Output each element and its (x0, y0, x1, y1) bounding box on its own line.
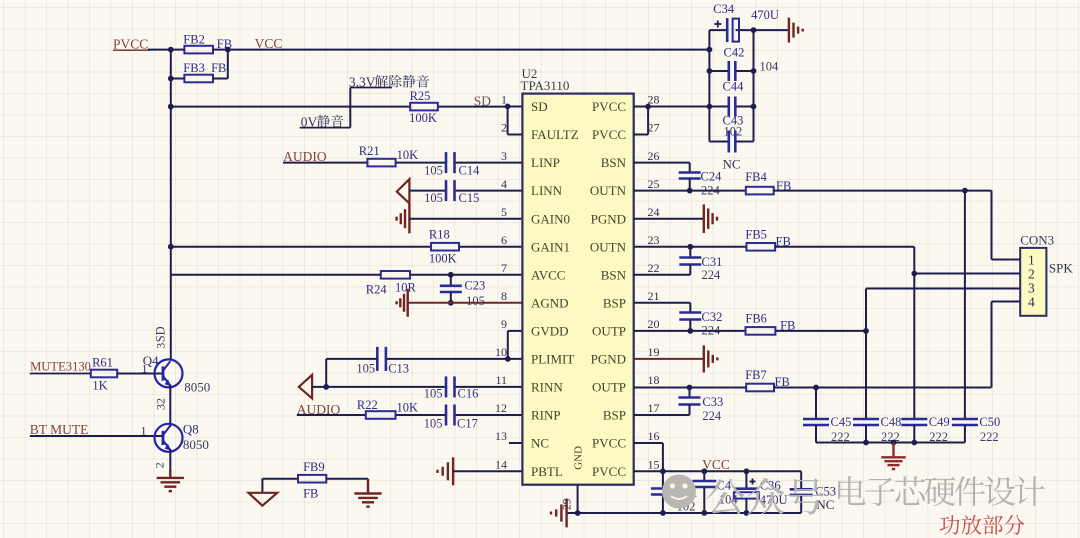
wire pin22 row (634, 274, 691, 276)
svg-text:FB: FB (211, 61, 226, 75)
svg-text:100K: 100K (409, 111, 437, 125)
wire FB3 up to VCC (227, 50, 229, 79)
svg-text:105: 105 (424, 163, 443, 177)
wire pin4 row (409, 190, 522, 192)
svg-text:FB5: FB5 (745, 227, 767, 241)
svg-text:NC: NC (531, 436, 549, 451)
ground earth snubber (881, 443, 905, 470)
wire C13 left bend (326, 359, 377, 387)
capacitor C23 (440, 275, 462, 303)
capacitor C13 (377, 347, 386, 371)
wire VCC top rail (228, 49, 710, 51)
label Q4 pin1 (142, 361, 148, 375)
svg-text:C14: C14 (459, 163, 481, 177)
svg-text:105: 105 (356, 362, 375, 376)
label R61 1K (92, 356, 113, 393)
label FB6 FB (745, 312, 795, 333)
svg-text:GND: GND (573, 446, 585, 470)
label C23 105 (464, 278, 485, 308)
label FB3 FB (183, 61, 226, 75)
label TPA3110 (521, 78, 570, 93)
junction C34 right (751, 27, 757, 33)
svg-text:17: 17 (648, 401, 660, 415)
transistor Q4 (155, 359, 183, 387)
junction rail SD row (168, 104, 174, 110)
svg-text:10R: 10R (395, 280, 417, 294)
svg-text:BSP: BSP (603, 295, 626, 310)
svg-text:TPA3110: TPA3110 (521, 78, 570, 93)
capacitor C49 (901, 419, 927, 443)
svg-text:224: 224 (702, 409, 722, 423)
svg-text:OUTN: OUTN (590, 183, 627, 198)
wire FB5 to CON3 pin2 (775, 247, 1020, 274)
resistor R21 (367, 159, 395, 167)
ground earth Q8 (157, 470, 184, 491)
wire pin11 row (312, 386, 522, 388)
svg-text:RINN: RINN (531, 380, 563, 395)
svg-text:C45: C45 (831, 415, 852, 429)
label CON3 pin numbers (1028, 253, 1035, 310)
junction pin11 node (323, 384, 329, 390)
label R25 100K (409, 89, 437, 125)
label U2 designator (522, 66, 538, 81)
label pin 29 rotated (562, 498, 574, 510)
svg-text:21: 21 (648, 289, 660, 303)
svg-text:25: 25 (648, 177, 660, 191)
wire pin9 bend (508, 331, 523, 359)
label 105 C14 (424, 163, 480, 177)
svg-text:C13: C13 (388, 362, 409, 376)
svg-text:FB4: FB4 (745, 170, 767, 184)
svg-text:19: 19 (648, 345, 660, 359)
capacitor C15 (446, 180, 455, 201)
ferrite bead FB2 (171, 46, 228, 54)
ground signal pin24 (634, 204, 717, 233)
svg-text:27: 27 (648, 121, 660, 135)
node VCC label bottom (702, 457, 730, 472)
capacitor C36 polarized (734, 471, 759, 513)
label R24 10R (366, 280, 417, 296)
svg-text:FB: FB (303, 487, 318, 501)
ferrite bead FB7 (746, 384, 774, 392)
svg-text:14: 14 (495, 458, 507, 472)
svg-text:105: 105 (424, 387, 443, 401)
wire pin23 row (634, 246, 747, 248)
capacitor C17 (446, 405, 455, 426)
svg-text:PVCC: PVCC (592, 99, 626, 114)
svg-text:C34: C34 (713, 2, 735, 16)
label C42 104 (724, 46, 780, 74)
svg-text:10K: 10K (397, 401, 419, 415)
label IC pin numbers (495, 93, 660, 472)
svg-text:C31: C31 (702, 255, 723, 269)
svg-text:R21: R21 (359, 144, 380, 158)
wire snubber bottom rail (816, 442, 965, 444)
svg-text:4: 4 (1028, 295, 1035, 310)
svg-text:C33: C33 (702, 395, 723, 409)
label C4 104 (717, 478, 739, 506)
svg-text:8050: 8050 (184, 380, 210, 395)
node PVCC label (113, 37, 150, 52)
ferrite bead FB6 (746, 327, 776, 335)
node VCC label (255, 36, 283, 51)
label C50 222 (979, 415, 1000, 444)
svg-text:1: 1 (141, 423, 147, 437)
svg-text:3: 3 (154, 343, 168, 349)
op-amp U1 IC body U2 TPA3110 (522, 94, 633, 485)
label NC top (723, 156, 741, 171)
svg-text:6: 6 (501, 233, 507, 247)
wire decoupling right rail (753, 30, 755, 141)
ferrite bead FB4 (746, 187, 774, 195)
wire pin26 bend (634, 163, 690, 173)
svg-text:470U: 470U (751, 8, 779, 22)
svg-text:FB3: FB3 (183, 61, 205, 75)
svg-text:NC: NC (723, 156, 741, 171)
svg-text:222: 222 (980, 430, 999, 444)
capacitor C34 polarized (709, 18, 753, 42)
label C24 224 (701, 169, 723, 197)
wire pin25 row (634, 190, 746, 192)
capacitor C42 (709, 61, 753, 81)
junction rail FB3 (168, 76, 174, 82)
ground signal pin5 (397, 204, 410, 233)
label C49 222 (929, 415, 950, 444)
svg-text:C49: C49 (929, 415, 950, 429)
label IC pin names (531, 99, 627, 479)
svg-text:FB6: FB6 (745, 312, 767, 326)
svg-text:8050: 8050 (183, 437, 209, 452)
resistor R18 (431, 243, 459, 251)
junction rail top (168, 47, 174, 53)
wire pin15 top rail (634, 470, 802, 472)
svg-text:CON3: CON3 (1020, 232, 1054, 247)
svg-text:11: 11 (495, 373, 507, 387)
svg-text:AGND: AGND (531, 295, 569, 310)
power flag arrow pin4 (397, 179, 410, 203)
svg-text:VCC: VCC (255, 36, 283, 51)
label R18 100K (429, 227, 457, 265)
junction pin18 (687, 385, 693, 391)
junction rail R18 row (168, 244, 174, 250)
svg-text:9: 9 (501, 317, 507, 331)
label R21 10K (359, 144, 418, 162)
wire C49 riser (913, 274, 915, 420)
label Q8 pin2 rotated (153, 462, 167, 468)
label FB of FB9 (303, 487, 318, 501)
svg-text:2: 2 (1028, 267, 1035, 282)
wire decoupling left rail (708, 30, 710, 141)
svg-text:NC: NC (816, 497, 834, 512)
label C45 222 (831, 415, 852, 444)
svg-text:MUTE3130: MUTE3130 (30, 359, 91, 373)
transistor Q8 (155, 424, 183, 452)
label FB9 (303, 460, 325, 474)
wire pins 28-27 bracket (634, 107, 648, 135)
capacitor C44 (729, 97, 754, 117)
label C53 NC (815, 485, 836, 512)
resistor R61 (91, 370, 117, 378)
svg-text:C15: C15 (459, 191, 480, 205)
svg-text:2: 2 (153, 462, 167, 468)
ground earth FB9 (354, 479, 381, 507)
node 3.3V unmute label (349, 75, 429, 90)
junction FB4 C50 branch (962, 188, 968, 194)
svg-text:OUTP: OUTP (592, 380, 626, 395)
wire pin13 stub (509, 442, 522, 444)
wire pin17 row (634, 414, 690, 416)
ferrite bead FB3 (171, 75, 228, 83)
capacitor C16 (446, 376, 455, 397)
svg-text:1: 1 (1028, 253, 1035, 268)
svg-text:224: 224 (702, 268, 722, 282)
junction FB7 C45 branch (813, 385, 819, 391)
svg-text:105: 105 (466, 294, 485, 308)
svg-text:1K: 1K (92, 378, 107, 392)
wire pin12 row (297, 414, 523, 416)
capacitor C31 (679, 247, 701, 275)
label CON3 (1020, 232, 1054, 247)
svg-text:3: 3 (1028, 281, 1035, 296)
junction FB2 output (225, 47, 231, 53)
wire CON3 pin3 row (866, 288, 1020, 290)
svg-text:18: 18 (648, 373, 660, 387)
wire Q8 base (30, 435, 163, 437)
label Q4 pin3 rotated (154, 343, 168, 349)
wire FB7 to CON3 pin4 (774, 302, 1020, 388)
wire pin18 row (634, 387, 747, 389)
label Q4 (143, 353, 159, 368)
node AUDIO label (283, 149, 327, 164)
junction pin28 (645, 104, 651, 110)
svg-text:26: 26 (648, 149, 660, 163)
capacitor C43 (709, 131, 753, 153)
svg-text:FB2: FB2 (183, 33, 205, 47)
svg-text:1: 1 (501, 93, 507, 107)
wire PVCC to rail (148, 49, 171, 51)
label R22 10K (357, 398, 418, 415)
label caption red (940, 515, 1025, 535)
ferrite bead FB9 (262, 475, 368, 483)
junction C42 rails (707, 68, 757, 74)
svg-text:SD: SD (531, 99, 548, 114)
wire pin8 row (408, 302, 523, 304)
node MUTE3130 label (30, 359, 91, 373)
wire pin14 row (453, 470, 522, 472)
svg-text:C24: C24 (701, 169, 723, 183)
capacitor C32 (679, 313, 701, 331)
wire Q8 emitter (169, 449, 171, 478)
wire pin20 row (634, 330, 746, 332)
node SD net label (474, 93, 492, 108)
svg-text:PVCC: PVCC (592, 436, 626, 451)
svg-text:15: 15 (648, 458, 660, 472)
svg-text:AVCC: AVCC (531, 267, 565, 282)
node SD rotated label (154, 326, 168, 342)
svg-text:C32: C32 (702, 310, 723, 324)
wire pin10 row (386, 358, 523, 360)
svg-text:OUTP: OUTP (592, 324, 626, 339)
label 105 C16 (424, 387, 479, 401)
svg-text:29: 29 (562, 498, 574, 510)
svg-text:PVCC: PVCC (113, 37, 148, 52)
svg-text:7: 7 (501, 261, 507, 275)
capacitor C24 (679, 173, 701, 191)
wire SD bracket pins 1-2 (508, 107, 523, 135)
label C44 (723, 80, 745, 94)
wire MUTE3130 to R61 (30, 373, 91, 375)
label C32 224 (702, 310, 723, 338)
capacitor C53 (790, 471, 813, 513)
node 0V mute label (300, 114, 351, 129)
label SPK (1049, 260, 1073, 275)
svg-text:SD: SD (154, 326, 168, 342)
capacitor C4 (692, 471, 716, 513)
svg-text:PBTL: PBTL (531, 464, 563, 479)
svg-text:PGND: PGND (591, 211, 626, 226)
junction VCC rail (707, 47, 713, 53)
label FB7 FB (745, 368, 790, 389)
label C33 224 (702, 395, 723, 423)
node BT MUTE label (30, 422, 89, 437)
wire bottom GND rail (567, 512, 802, 514)
wire pin7 row (171, 274, 523, 276)
connector CON3 body (1020, 248, 1046, 316)
wire C45 riser (815, 388, 817, 420)
svg-text:C44: C44 (723, 80, 745, 94)
svg-text:FB7: FB7 (745, 368, 767, 382)
svg-text:BSN: BSN (601, 155, 627, 170)
svg-text:R61: R61 (92, 356, 113, 370)
svg-text:SPK: SPK (1049, 260, 1073, 275)
svg-text:BSP: BSP (603, 408, 626, 423)
label 8050 Q8 (183, 437, 209, 452)
ground signal pin14 (438, 457, 454, 485)
label C34 470U (713, 2, 779, 22)
svg-text:3: 3 (501, 149, 507, 163)
label pins 2-3 rotated (154, 398, 168, 410)
svg-text:PLIMIT: PLIMIT (531, 352, 574, 367)
junction C23 top (448, 272, 454, 278)
svg-text:20: 20 (648, 317, 660, 331)
label FB5 FB (745, 227, 790, 248)
svg-text:10K: 10K (397, 148, 419, 162)
capacitor C50 (952, 419, 978, 443)
ground signal pad29 (551, 499, 567, 528)
svg-text:105: 105 (424, 417, 443, 431)
svg-text:LINN: LINN (531, 183, 563, 198)
svg-text:FAULTZ: FAULTZ (531, 127, 579, 142)
svg-text:GVDD: GVDD (531, 324, 569, 339)
svg-text:AUDIO: AUDIO (283, 149, 327, 164)
svg-text:100K: 100K (429, 252, 457, 266)
label C43 102 (723, 114, 744, 139)
capacitor C45 (803, 419, 829, 443)
wire pin5 row (409, 218, 522, 220)
capacitor C51 (651, 471, 675, 513)
svg-text:104: 104 (760, 60, 780, 74)
wire pin21 bend (634, 303, 691, 313)
label C48 222 (881, 415, 902, 444)
svg-text:SD: SD (474, 93, 492, 108)
label 105 C13 (356, 362, 409, 376)
wire C48 riser (865, 289, 867, 420)
label GND rotated (573, 446, 585, 470)
label 105 C17 (424, 417, 478, 431)
wire mute label stem (349, 88, 351, 128)
resistor R25 (410, 103, 438, 111)
capacitor C33 (679, 388, 701, 416)
junction snubber rail (863, 440, 917, 446)
ground signal pin19 (634, 345, 718, 372)
svg-text:C48: C48 (881, 415, 902, 429)
ground signal C34 (754, 18, 803, 43)
wire pin28 to rails (648, 106, 729, 108)
power flag down FB9 (249, 479, 278, 506)
junction bottom rail (575, 510, 750, 516)
svg-text:LINP: LINP (531, 155, 560, 170)
wire pin6 row (171, 246, 523, 248)
capacitor C48 (853, 419, 879, 443)
label C51 102 (677, 485, 698, 513)
svg-text:Q8: Q8 (183, 422, 199, 437)
svg-text:OUTN: OUTN (590, 239, 627, 254)
junction pin10 (505, 356, 511, 362)
svg-text:C17: C17 (457, 417, 478, 431)
svg-text:R24: R24 (366, 283, 388, 297)
junction pin20 (687, 328, 693, 334)
label Q8 (183, 422, 199, 437)
svg-text:105: 105 (424, 191, 443, 205)
svg-text:R18: R18 (429, 227, 450, 241)
junction pin25 (687, 188, 693, 194)
svg-text:R25: R25 (410, 89, 431, 103)
junction FB6 C48 branch (863, 328, 869, 334)
label 105 C15 (424, 191, 479, 205)
svg-text:22: 22 (648, 261, 660, 275)
svg-text:13: 13 (495, 429, 507, 443)
svg-text:4: 4 (501, 177, 507, 191)
svg-text:C42: C42 (724, 46, 745, 60)
junction pin2 node (911, 271, 917, 277)
svg-text:8: 8 (501, 289, 507, 303)
power flag arrow audio (299, 375, 312, 398)
wire AUDIO row pin3 (283, 162, 522, 164)
svg-text:GAIN1: GAIN1 (531, 239, 570, 254)
label FB4 FB (745, 170, 791, 193)
junction top rail (660, 468, 749, 474)
wire Q4 base (117, 373, 163, 375)
svg-text:PGND: PGND (591, 352, 626, 367)
svg-text:C50: C50 (979, 415, 1000, 429)
label C36 470U (760, 478, 788, 507)
wire FB6 to riser (775, 330, 866, 332)
junction C23 bottom (448, 300, 454, 306)
node AUDIO label lower (297, 402, 341, 417)
svg-text:12: 12 (495, 401, 507, 415)
svg-text:32: 32 (154, 398, 168, 410)
junction pin23 (687, 244, 693, 250)
svg-text:5: 5 (501, 205, 507, 219)
wire FB4 to CON3 pin1 (774, 191, 1021, 260)
svg-text:PVCC: PVCC (592, 127, 626, 142)
svg-text:GAIN0: GAIN0 (531, 211, 570, 226)
svg-text:BT MUTE: BT MUTE (30, 422, 89, 437)
svg-text:2: 2 (501, 121, 507, 135)
svg-text:24: 24 (648, 205, 660, 219)
svg-text:VCC: VCC (702, 457, 730, 472)
resistor R22 (366, 411, 396, 419)
